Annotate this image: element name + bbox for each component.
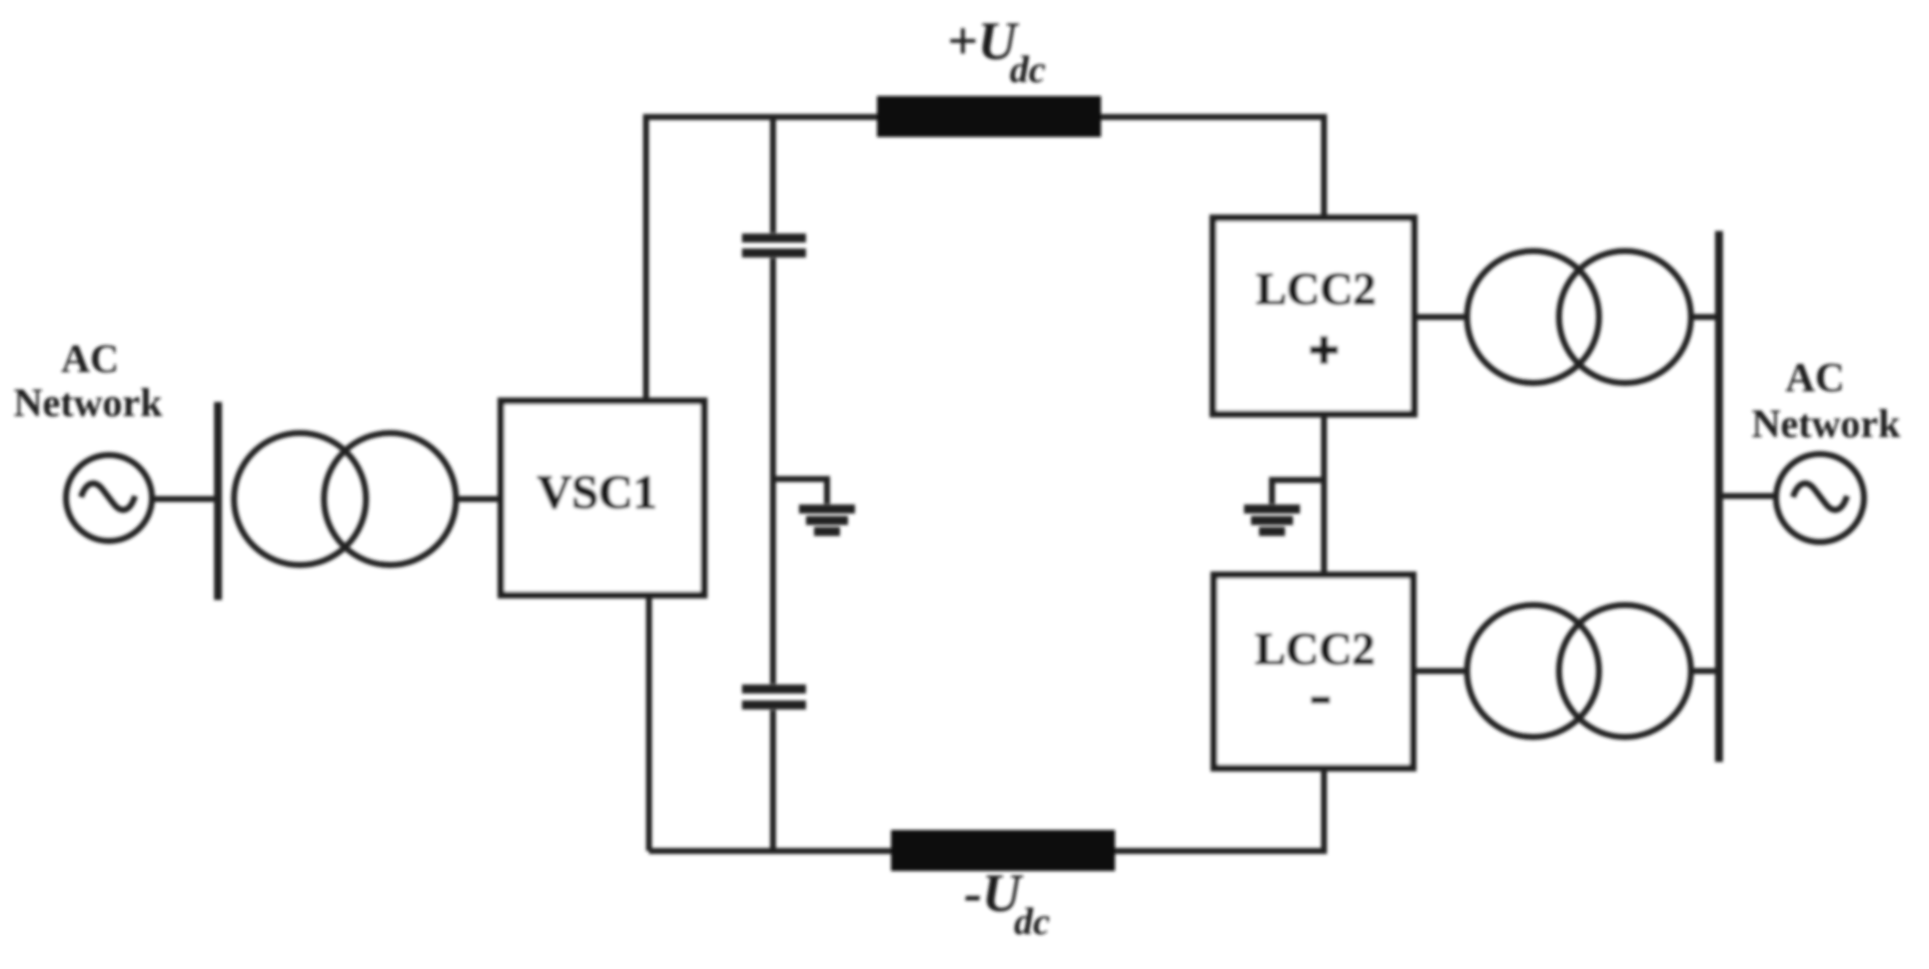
svg-text:LCC2: LCC2 (1255, 623, 1375, 674)
svg-text:AC: AC (61, 336, 119, 381)
svg-text:Network: Network (14, 380, 164, 425)
svg-text:Network: Network (1752, 401, 1902, 446)
svg-text:VSC1: VSC1 (537, 466, 657, 519)
svg-text:LCC2: LCC2 (1256, 263, 1376, 314)
svg-text:AC: AC (1785, 354, 1844, 400)
